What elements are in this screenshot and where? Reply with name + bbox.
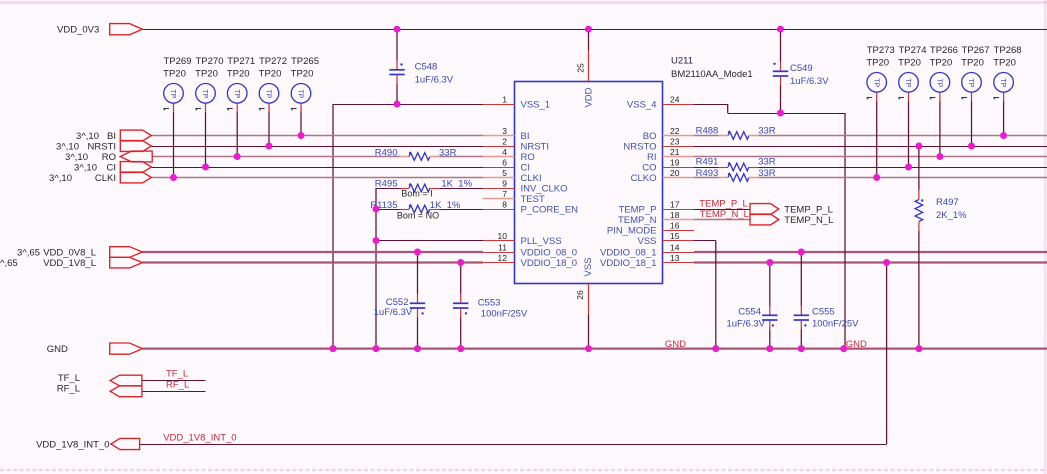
port NRSTI bbox=[56, 141, 151, 153]
svg-text:R493: R493 bbox=[696, 168, 719, 179]
wire TP265 stem bbox=[300, 103, 302, 135]
wire R497 top to NRSTO bbox=[918, 146, 920, 190]
svg-text:NRSTI: NRSTI bbox=[88, 141, 117, 152]
capacitor C553 bbox=[453, 263, 528, 349]
svg-text:VDDIO_08_1: VDDIO_08_1 bbox=[600, 247, 657, 258]
pin 8 P_CORE_EN bbox=[483, 200, 578, 216]
svg-text:CO: CO bbox=[642, 162, 656, 173]
wire RO right of R490 bbox=[440, 156, 484, 158]
wire NRSTO bbox=[694, 146, 1047, 148]
junction top rail pin25 bbox=[585, 26, 592, 33]
wire R1135 left lead bbox=[376, 209, 400, 211]
svg-text:CLKI: CLKI bbox=[521, 173, 542, 184]
wire BO left of R488 bbox=[694, 135, 719, 137]
test point TP274 bbox=[898, 45, 926, 99]
wire TP266 stem bbox=[939, 92, 941, 156]
wire VSS_4 vertical to GND bbox=[844, 113, 846, 349]
net label RF_L bbox=[166, 379, 189, 390]
svg-text:P_CORE_EN: P_CORE_EN bbox=[521, 204, 579, 215]
svg-text:TP20: TP20 bbox=[195, 68, 218, 79]
junction GND VSS_4 branch bbox=[840, 345, 847, 352]
svg-text:TEMP_N_L: TEMP_N_L bbox=[700, 209, 749, 220]
resistor R497 bbox=[915, 190, 967, 231]
svg-text:100nF/25V: 100nF/25V bbox=[481, 309, 528, 320]
svg-text:1K_1%: 1K_1% bbox=[430, 200, 461, 211]
svg-text:4: 4 bbox=[502, 147, 507, 157]
junction GND C554 bbox=[766, 345, 773, 352]
junction GND C552 bbox=[414, 345, 421, 352]
svg-text:VDD: VDD bbox=[584, 87, 595, 107]
test point TP266 bbox=[930, 45, 958, 99]
wire CLKI bbox=[151, 177, 483, 179]
wire TEMP_P to port bbox=[694, 209, 750, 211]
junction C549 VSS_4 bbox=[777, 110, 784, 117]
svg-text:1K_1%: 1K_1% bbox=[441, 179, 472, 190]
svg-text:C553: C553 bbox=[478, 298, 501, 309]
junction TP269 CLKI bbox=[170, 174, 177, 181]
net label GND 1 bbox=[665, 339, 686, 350]
svg-text:TP20: TP20 bbox=[163, 68, 186, 79]
capacitor C552 bbox=[374, 252, 426, 349]
wire VDD_1V8_INT_0 horizontal bbox=[140, 444, 887, 446]
wire RF_L stub bbox=[142, 391, 205, 393]
svg-text:VSS_4: VSS_4 bbox=[627, 99, 657, 110]
svg-text:16: 16 bbox=[670, 221, 680, 231]
svg-text:U211: U211 bbox=[671, 56, 693, 67]
svg-text:TP268: TP268 bbox=[994, 45, 1022, 56]
pin 3 BI bbox=[483, 126, 529, 142]
svg-text:TEMP_N: TEMP_N bbox=[618, 215, 657, 226]
svg-text:33R: 33R bbox=[758, 168, 776, 179]
port VDD_1V8_INT_0 bbox=[36, 438, 140, 450]
svg-text:15: 15 bbox=[670, 231, 680, 241]
svg-text:5: 5 bbox=[502, 168, 507, 178]
junction TP266 RI bbox=[936, 153, 943, 160]
net label VDD_1V8_INT_0 bbox=[163, 433, 236, 444]
svg-text:TP20: TP20 bbox=[930, 57, 953, 68]
svg-text:3: 3 bbox=[502, 126, 507, 136]
wire TP269 stem bbox=[173, 103, 175, 177]
svg-text:VSS: VSS bbox=[583, 257, 594, 276]
svg-text:33R: 33R bbox=[758, 126, 776, 137]
pin 17 TEMP_P bbox=[618, 200, 694, 216]
resistor R1135 bbox=[370, 200, 461, 221]
wire VDD_0V3 top rail bbox=[142, 29, 1047, 31]
wire TP271 stem bbox=[236, 103, 238, 156]
net label GND 2 bbox=[846, 339, 867, 350]
svg-text:19: 19 bbox=[670, 158, 680, 168]
port BI bbox=[76, 130, 151, 142]
svg-text:TP20: TP20 bbox=[993, 57, 1016, 68]
wire VDD_0V8_L rail bbox=[142, 251, 483, 253]
wire VDD_1V8_L rail bbox=[142, 261, 483, 263]
svg-text:100nF/25V: 100nF/25V bbox=[812, 319, 859, 330]
resistor R495 bbox=[375, 179, 473, 199]
wire VSS pin15 vertical to GND bbox=[715, 241, 717, 349]
junction TP272 NRSTI bbox=[266, 143, 273, 150]
port VDD_1V8_L bbox=[0, 257, 142, 269]
junction GND VSS_1 bbox=[330, 345, 337, 352]
junction C552 VDD_0V8_L bbox=[414, 249, 421, 256]
junction PLL_VSS vertical bbox=[373, 237, 380, 244]
junction GND pin15 branch bbox=[712, 345, 719, 352]
junction GND C555 bbox=[798, 345, 805, 352]
wire BI bbox=[151, 135, 483, 137]
svg-text:23: 23 bbox=[670, 137, 680, 147]
svg-text:TP274: TP274 bbox=[899, 45, 927, 56]
junction C553 VDD_1V8_L bbox=[457, 259, 464, 266]
svg-text:RO: RO bbox=[521, 152, 535, 163]
svg-text:TP: TP bbox=[999, 78, 1006, 87]
svg-text:6: 6 bbox=[502, 158, 507, 168]
wire TP270 stem bbox=[205, 103, 207, 167]
svg-text:3^,65: 3^,65 bbox=[17, 247, 40, 258]
svg-text:PLL_VSS: PLL_VSS bbox=[521, 236, 562, 247]
wire CO left of R491 bbox=[694, 167, 719, 169]
svg-text:VDDIO_18_1: VDDIO_18_1 bbox=[600, 258, 657, 269]
resistor R493 bbox=[696, 168, 776, 181]
svg-text:TP269: TP269 bbox=[164, 56, 192, 67]
svg-text:VDD_1V8_INT_0: VDD_1V8_INT_0 bbox=[163, 433, 236, 444]
port CLKI bbox=[49, 172, 151, 184]
junction top rail C549 bbox=[777, 26, 784, 33]
svg-text:13: 13 bbox=[670, 253, 680, 263]
svg-text:TP: TP bbox=[201, 89, 208, 98]
pin 16 PIN_MODE bbox=[607, 221, 694, 237]
capacitor C554 bbox=[726, 263, 777, 349]
junction top rail C548 bbox=[394, 26, 401, 33]
test point TP267 bbox=[961, 45, 989, 99]
junction GND R495 branch bbox=[373, 345, 380, 352]
svg-text:33R: 33R bbox=[758, 156, 776, 167]
svg-text:TF_L: TF_L bbox=[166, 368, 188, 379]
svg-text:TP: TP bbox=[936, 78, 943, 87]
svg-text:12: 12 bbox=[498, 253, 508, 263]
pin 25 VDD bbox=[576, 50, 595, 108]
svg-text:33R: 33R bbox=[439, 147, 457, 158]
svg-text:1uF/6.3V: 1uF/6.3V bbox=[790, 76, 829, 87]
svg-text:21: 21 bbox=[670, 147, 680, 157]
page border smear right bbox=[1044, 0, 1046, 474]
svg-text:BO: BO bbox=[643, 131, 657, 142]
junction C554 VDDIO_18_1 bbox=[766, 259, 773, 266]
svg-text:TEMP_P: TEMP_P bbox=[618, 204, 656, 215]
junction TP268 BO bbox=[1000, 132, 1007, 139]
wire RI bbox=[694, 156, 1047, 158]
svg-text:TP20: TP20 bbox=[866, 57, 889, 68]
svg-text:3^,10: 3^,10 bbox=[76, 131, 99, 142]
svg-text:24: 24 bbox=[670, 95, 680, 105]
svg-text:17: 17 bbox=[670, 200, 680, 210]
junction GND C553 bbox=[457, 345, 464, 352]
svg-text:RI: RI bbox=[647, 152, 657, 163]
wire VDDIO_18_1 rail right bbox=[694, 261, 1047, 263]
wire TF_L stub bbox=[142, 380, 205, 382]
svg-text:C555: C555 bbox=[812, 307, 835, 318]
wire VSS_1 vertical to GND bbox=[332, 104, 334, 349]
pin 23 NRSTO bbox=[623, 137, 694, 153]
svg-text:25: 25 bbox=[576, 63, 586, 73]
svg-text:1uF/6.3V: 1uF/6.3V bbox=[374, 307, 413, 318]
pin 26 VSS bbox=[575, 257, 594, 315]
pin 5 CLKI bbox=[483, 168, 542, 184]
svg-text:GND: GND bbox=[846, 339, 867, 350]
svg-text:C554: C554 bbox=[738, 307, 761, 318]
svg-text:TP270: TP270 bbox=[196, 56, 224, 67]
pin 21 RI bbox=[647, 147, 694, 163]
test point TP269 bbox=[163, 56, 191, 110]
wire VDD_1V8_INT_0 vertical bbox=[886, 263, 888, 445]
svg-text:1uF/6.3V: 1uF/6.3V bbox=[415, 75, 454, 86]
wire VSS_4 at y113 bbox=[728, 113, 845, 115]
svg-text:TEMP_N_L: TEMP_N_L bbox=[784, 215, 833, 226]
test point TP268 bbox=[993, 45, 1021, 99]
wire GND rail bbox=[142, 348, 1047, 350]
svg-text:Bom = NO: Bom = NO bbox=[397, 211, 439, 221]
wire VSS_1 pin1 horizontal bbox=[333, 104, 483, 106]
svg-text:C549: C549 bbox=[790, 63, 813, 74]
port CI bbox=[74, 162, 151, 174]
svg-text:TP273: TP273 bbox=[867, 45, 895, 56]
svg-text:TP: TP bbox=[265, 89, 272, 98]
svg-text:TP265: TP265 bbox=[291, 56, 319, 67]
IC U211 BM2110AA_Mode1 body bbox=[515, 82, 663, 284]
wire CO right of R491 bbox=[759, 167, 1047, 169]
test point TP265 bbox=[291, 56, 319, 110]
pin 18 TEMP_N bbox=[618, 210, 694, 226]
page border smear top bbox=[0, 1, 1047, 4]
test point TP271 bbox=[227, 56, 255, 110]
svg-text:TP: TP bbox=[233, 89, 240, 98]
pin 24 VSS_4 bbox=[627, 95, 694, 111]
svg-text:TP20: TP20 bbox=[898, 57, 921, 68]
svg-text:NRSTO: NRSTO bbox=[623, 141, 656, 152]
svg-text:TP: TP bbox=[169, 89, 176, 98]
wire pin26 VSS to GND rail bbox=[588, 315, 590, 349]
port TEMP_N_L bbox=[750, 214, 833, 226]
junction TP273 CLKO bbox=[873, 174, 880, 181]
svg-text:7: 7 bbox=[502, 189, 507, 199]
capacitor C555 bbox=[794, 252, 860, 349]
pin 20 CLKO bbox=[631, 168, 694, 184]
svg-text:CLKO: CLKO bbox=[631, 173, 657, 184]
svg-text:14: 14 bbox=[670, 243, 680, 253]
net label TEMP_N_L bbox=[700, 209, 749, 220]
svg-text:VSS_1: VSS_1 bbox=[521, 99, 551, 110]
junction VDD_1V8_INT_0 pin13 bbox=[883, 259, 890, 266]
svg-text:9: 9 bbox=[502, 179, 507, 189]
svg-text:TP: TP bbox=[872, 78, 879, 87]
wire VSS_4 step down bbox=[727, 104, 729, 113]
wire RO left of R490 bbox=[152, 156, 399, 158]
port RF_L bbox=[57, 384, 142, 397]
pin 10 PLL_VSS bbox=[483, 231, 562, 247]
junction GND R497 bbox=[916, 345, 923, 352]
svg-text:CI: CI bbox=[107, 162, 117, 173]
svg-text:^,65: ^,65 bbox=[0, 258, 18, 269]
wire R497 bottom to GND bbox=[918, 231, 920, 349]
wire CLKO left of R493 bbox=[694, 177, 719, 179]
svg-text:R497: R497 bbox=[936, 197, 959, 208]
svg-text:C548: C548 bbox=[415, 61, 438, 72]
svg-text:TP272: TP272 bbox=[259, 56, 287, 67]
svg-text:R488: R488 bbox=[696, 126, 719, 137]
wire VSS pin15 horizontal bbox=[694, 240, 716, 242]
page border smear bottom bbox=[0, 469, 1047, 471]
wire TP272 stem bbox=[268, 103, 270, 146]
junction C548 pin1 bbox=[394, 101, 401, 108]
pin 6 CI bbox=[483, 158, 530, 174]
svg-text:TP: TP bbox=[904, 78, 911, 87]
junction TP271 RO bbox=[234, 153, 241, 160]
svg-text:TEST: TEST bbox=[521, 194, 545, 205]
pin 22 BO bbox=[643, 126, 694, 142]
pin 9 INV_CLKO bbox=[483, 179, 568, 195]
junction TP265 BI bbox=[298, 132, 305, 139]
svg-text:TP266: TP266 bbox=[930, 45, 958, 56]
U211 reference label bbox=[671, 56, 693, 67]
svg-text:TP: TP bbox=[967, 78, 974, 87]
net label TF_L bbox=[166, 368, 188, 379]
svg-text:TEMP_P_L: TEMP_P_L bbox=[699, 198, 748, 209]
svg-text:11: 11 bbox=[498, 243, 507, 253]
test point TP270 bbox=[195, 56, 223, 110]
port RO bbox=[65, 151, 152, 163]
U211 value label bbox=[671, 69, 753, 80]
junction TP267 NRSTO bbox=[968, 143, 975, 150]
wire CI bbox=[151, 167, 483, 169]
svg-text:BI: BI bbox=[107, 131, 116, 142]
port VDD_0V3 bbox=[57, 24, 142, 36]
pin 14 VDDIO_08_1 bbox=[600, 243, 694, 259]
capacitor C548 bbox=[389, 29, 454, 104]
svg-text:26: 26 bbox=[575, 290, 585, 300]
svg-text:VDD_0V8_L: VDD_0V8_L bbox=[43, 247, 96, 258]
svg-text:10: 10 bbox=[498, 231, 508, 241]
resistor R490 bbox=[375, 147, 457, 160]
junction TP274 CO bbox=[905, 164, 912, 171]
svg-text:GND: GND bbox=[665, 339, 686, 350]
svg-text:TP267: TP267 bbox=[962, 45, 990, 56]
svg-text:Bom = I: Bom = I bbox=[401, 188, 432, 198]
svg-text:TP20: TP20 bbox=[259, 68, 282, 79]
svg-text:VDDIO_08_0: VDDIO_08_0 bbox=[521, 247, 578, 258]
wire TP273 stem bbox=[876, 92, 878, 177]
svg-text:TF_L: TF_L bbox=[58, 373, 80, 384]
port TF_L bbox=[58, 373, 142, 386]
wire NRSTI bbox=[151, 146, 483, 148]
svg-text:3^,10: 3^,10 bbox=[74, 162, 97, 173]
wire BO right of R488 bbox=[759, 135, 1047, 137]
pin 13 VDDIO_18_1 bbox=[600, 253, 694, 269]
pin 7 TEST bbox=[483, 189, 545, 205]
wire PLL_VSS pin10 bbox=[376, 240, 483, 242]
svg-text:NRSTI: NRSTI bbox=[521, 141, 550, 152]
svg-text:VSS: VSS bbox=[637, 236, 656, 247]
svg-text:VDDIO_18_0: VDDIO_18_0 bbox=[521, 258, 578, 269]
wire TP267 stem bbox=[971, 92, 973, 146]
pin 2 NRSTI bbox=[483, 137, 549, 153]
junction GND pin26 bbox=[585, 345, 592, 352]
svg-text:2K_1%: 2K_1% bbox=[936, 210, 967, 221]
pin 1 VSS_1 bbox=[483, 95, 550, 111]
wire R495 left vertical to GND bbox=[375, 188, 377, 349]
port GND bbox=[47, 343, 143, 355]
svg-text:R490: R490 bbox=[375, 147, 398, 158]
pin 12 VDDIO_18_0 bbox=[483, 253, 577, 269]
wire VSS_4 pin24 horizontal bbox=[694, 104, 728, 106]
svg-text:8: 8 bbox=[502, 200, 507, 210]
resistor R491 bbox=[696, 156, 776, 171]
resistor R488 bbox=[696, 126, 776, 140]
svg-text:22: 22 bbox=[670, 126, 680, 136]
svg-text:2: 2 bbox=[502, 137, 507, 147]
junction C555 VDDIO_08_1 bbox=[798, 249, 805, 256]
svg-text:BM2110AA_Mode1: BM2110AA_Mode1 bbox=[671, 69, 753, 80]
net label TEMP_P_L bbox=[699, 198, 748, 209]
svg-text:R491: R491 bbox=[696, 156, 719, 167]
wire TP268 stem bbox=[1003, 92, 1005, 135]
pin 11 VDDIO_08_0 bbox=[483, 243, 577, 259]
wire pin25 VDD to top rail bbox=[588, 29, 590, 50]
svg-text:CI: CI bbox=[521, 162, 531, 173]
svg-text:RO: RO bbox=[102, 152, 116, 163]
svg-text:CLKI: CLKI bbox=[95, 173, 116, 184]
junction R1135 vertical bbox=[373, 206, 380, 213]
svg-text:1: 1 bbox=[502, 95, 507, 105]
svg-text:3^,10: 3^,10 bbox=[49, 173, 72, 184]
svg-text:R495: R495 bbox=[375, 179, 398, 190]
wire R495 left lead bbox=[376, 188, 400, 190]
wire VDDIO_08_1 rail right bbox=[694, 251, 1047, 253]
svg-text:INV_CLKO: INV_CLKO bbox=[521, 183, 568, 194]
wire R495 to pin9 bbox=[440, 188, 484, 190]
junction TP270 CI bbox=[202, 164, 209, 171]
junction R497 NRSTO bbox=[915, 143, 922, 150]
svg-text:20: 20 bbox=[670, 168, 680, 178]
svg-text:GND: GND bbox=[47, 344, 68, 355]
port TEMP_P_L bbox=[750, 204, 833, 216]
svg-text:VDD_1V8_L: VDD_1V8_L bbox=[43, 258, 96, 269]
svg-text:TP: TP bbox=[297, 89, 304, 98]
svg-text:3^,10: 3^,10 bbox=[65, 152, 88, 163]
svg-text:TP20: TP20 bbox=[227, 68, 250, 79]
svg-text:PIN_MODE: PIN_MODE bbox=[607, 225, 657, 236]
svg-text:TP20: TP20 bbox=[961, 57, 984, 68]
wire R1135 to pin8 bbox=[440, 209, 484, 211]
svg-text:3^,10: 3^,10 bbox=[56, 141, 79, 152]
pin 15 VSS bbox=[637, 231, 694, 247]
svg-text:TP271: TP271 bbox=[227, 56, 255, 67]
capacitor C549 bbox=[773, 29, 829, 113]
svg-text:TEMP_P_L: TEMP_P_L bbox=[784, 204, 833, 215]
svg-text:VDD_1V8_INT_0: VDD_1V8_INT_0 bbox=[36, 439, 109, 450]
svg-text:BI: BI bbox=[521, 131, 530, 142]
svg-text:VDD_0V3: VDD_0V3 bbox=[57, 25, 99, 36]
pin 19 CO bbox=[642, 158, 694, 174]
pin 4 RO bbox=[483, 147, 535, 163]
port VDD_0V8_L bbox=[17, 247, 142, 259]
svg-text:1uF/6.3V: 1uF/6.3V bbox=[726, 319, 765, 330]
svg-text:TP20: TP20 bbox=[291, 68, 314, 79]
svg-text:RF_L: RF_L bbox=[166, 379, 189, 390]
svg-text:18: 18 bbox=[670, 210, 680, 220]
wire CLKO right of R493 bbox=[759, 177, 1047, 179]
wire TP274 stem bbox=[908, 92, 910, 167]
test point TP273 bbox=[866, 45, 894, 99]
wire TEMP_N to port bbox=[694, 219, 750, 221]
svg-text:RF_L: RF_L bbox=[57, 384, 80, 395]
